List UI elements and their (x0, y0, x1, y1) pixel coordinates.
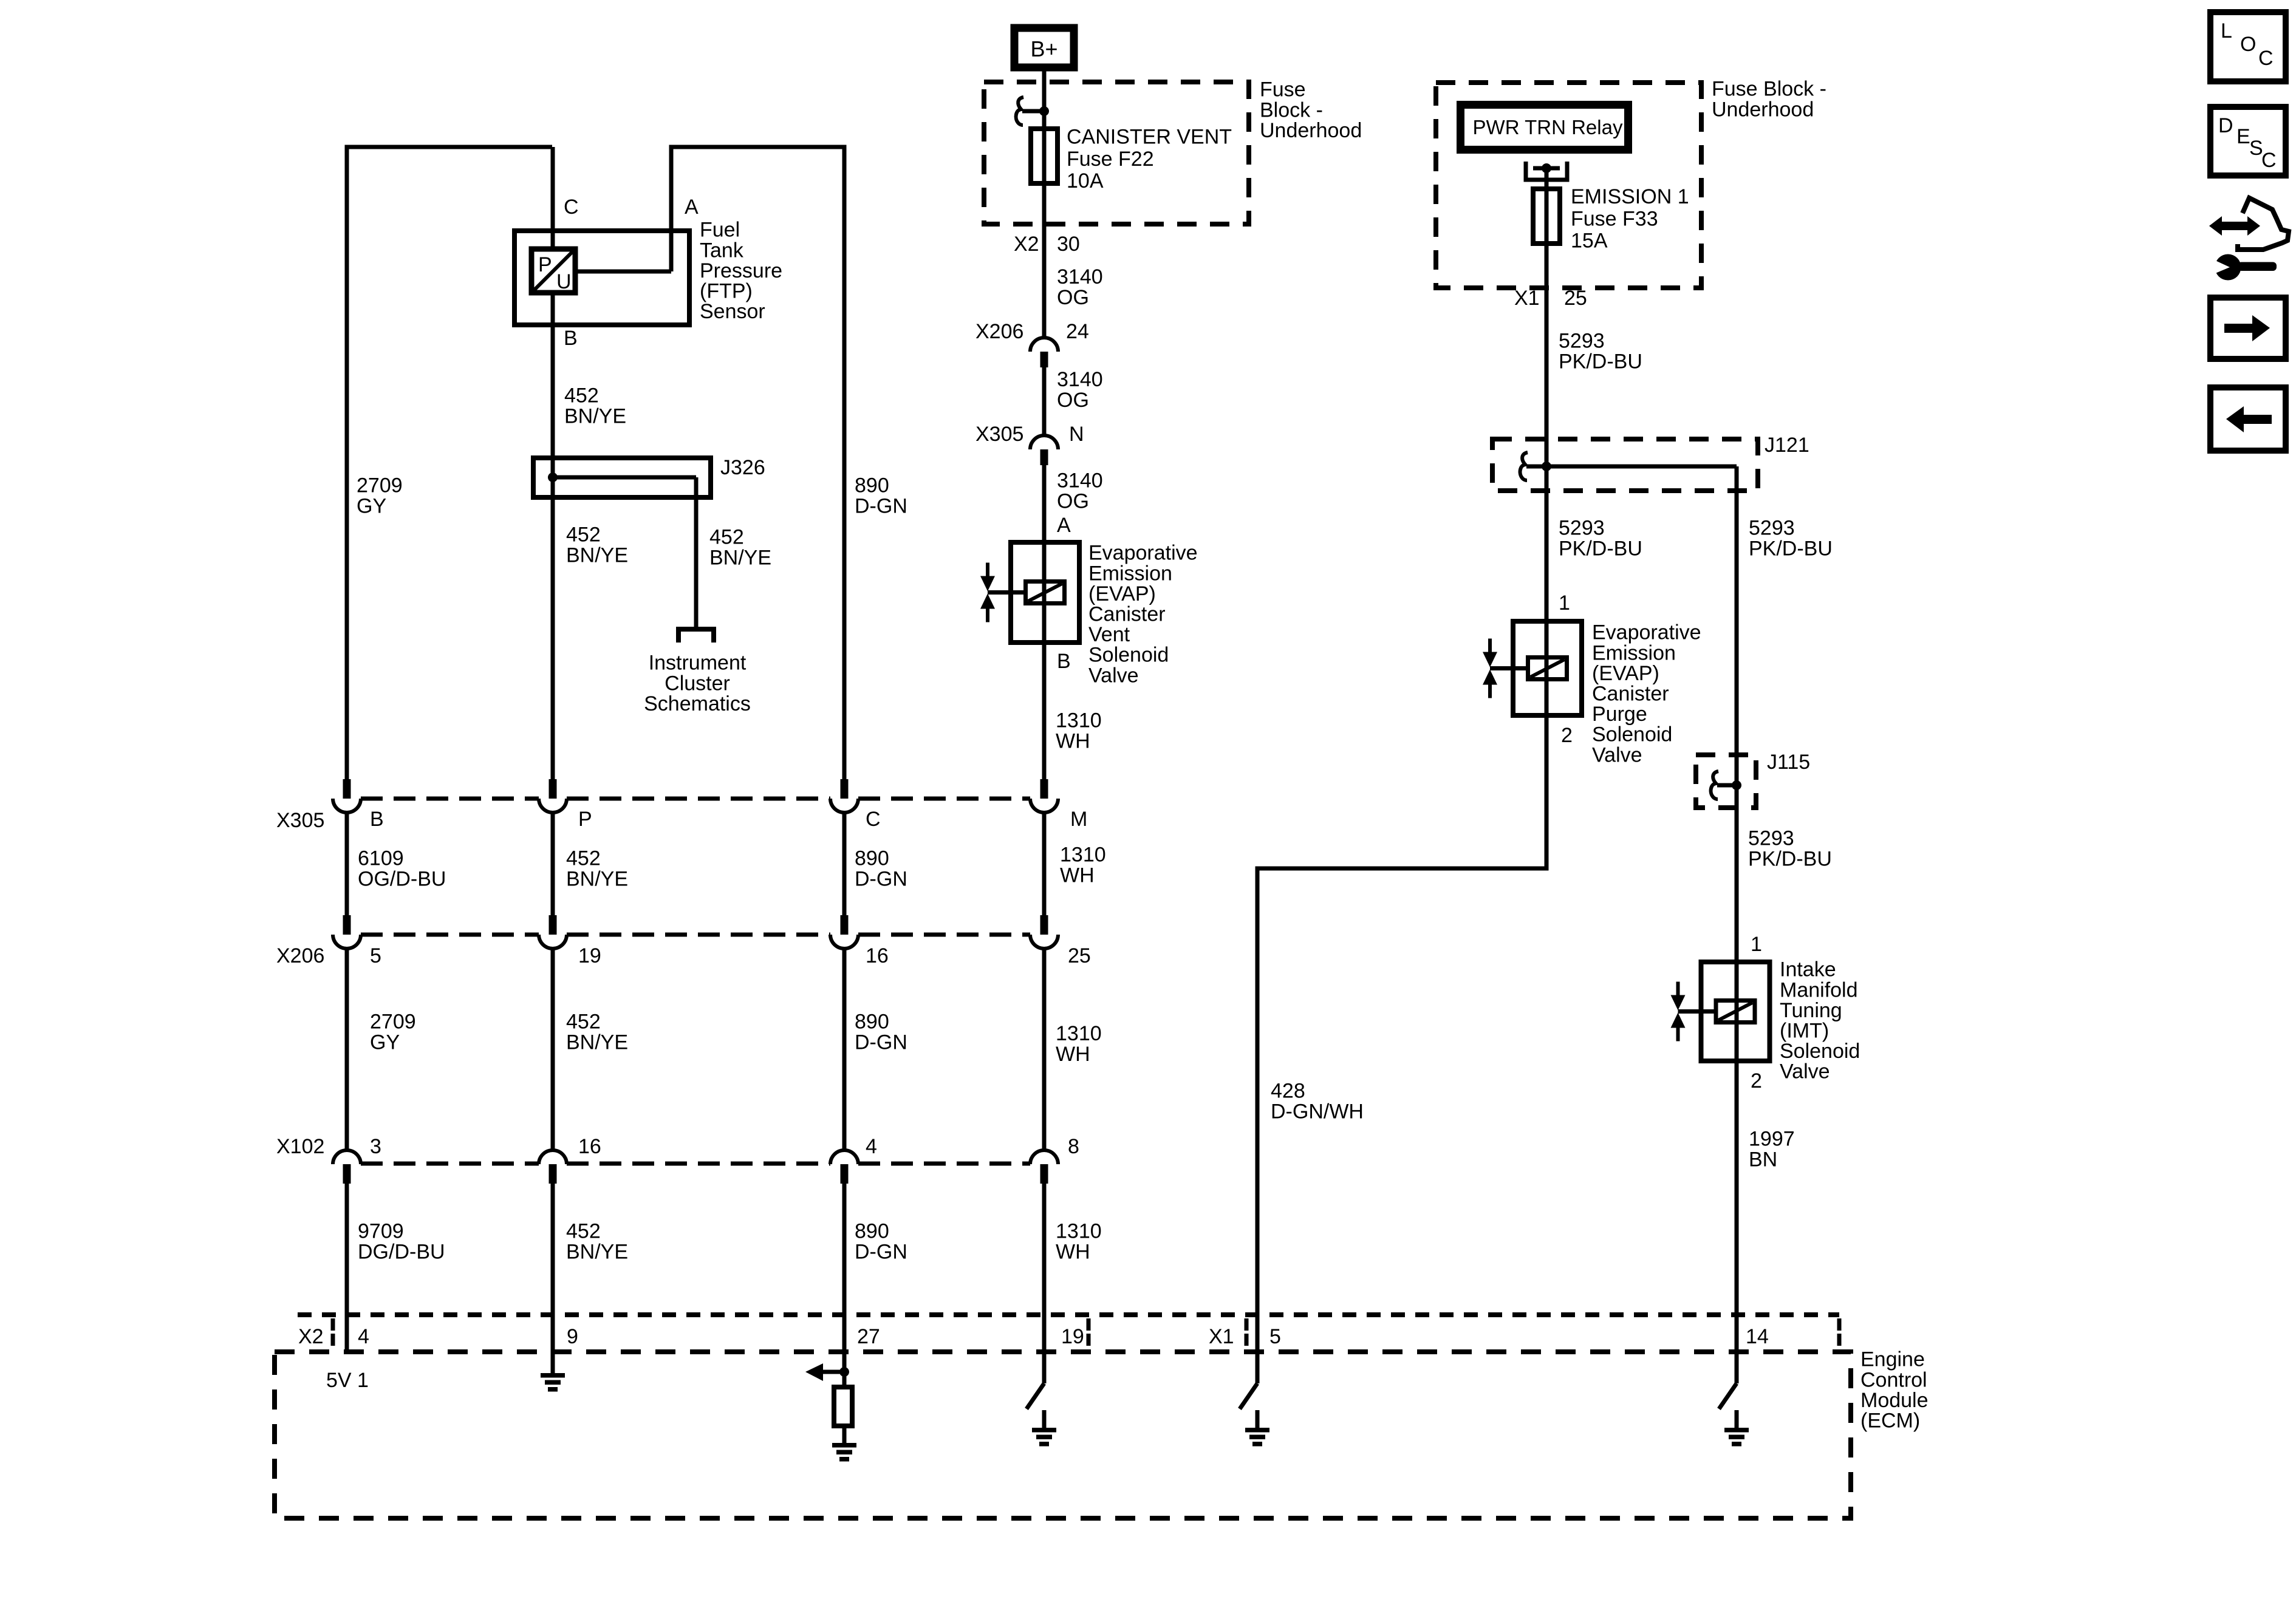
svg-text:WH: WH (1056, 729, 1090, 752)
svg-text:J115: J115 (1767, 751, 1810, 774)
svg-text:Control: Control (1860, 1368, 1927, 1391)
svg-text:428: 428 (1271, 1080, 1305, 1103)
svg-text:Fuel: Fuel (700, 219, 740, 242)
fuse block underhood dashed box (right) (1436, 83, 1701, 288)
junction dot J121 (1542, 462, 1551, 471)
icon back arrow box (2210, 387, 2286, 451)
svg-text:452: 452 (566, 523, 601, 547)
svg-text:D: D (2218, 114, 2233, 137)
in-line connector X206 pin 24 (1030, 338, 1058, 352)
wire fuse F33 to J121 (1545, 244, 1549, 466)
svg-text:Fuse: Fuse (1260, 78, 1306, 101)
svg-text:X206: X206 (975, 320, 1023, 343)
wire segments X305 to X206 (345, 812, 349, 916)
svg-text:16: 16 (578, 1135, 601, 1158)
svg-text:Fuse F22: Fuse F22 (1067, 148, 1154, 171)
svg-text:25: 25 (1564, 287, 1587, 310)
svg-text:U: U (556, 270, 572, 293)
svg-text:C: C (2258, 47, 2274, 70)
svg-text:X305: X305 (276, 809, 324, 832)
ECM internal ground (pin 9) (541, 1373, 565, 1378)
svg-text:5: 5 (1269, 1325, 1281, 1348)
wire through IMT valve (1735, 962, 1739, 1061)
svg-text:L: L (2221, 19, 2232, 43)
in-line connector X305 pin N (1030, 435, 1058, 449)
svg-text:J326: J326 (720, 456, 765, 479)
svg-text:1310: 1310 (1056, 1022, 1102, 1045)
relay contact bracket (1526, 162, 1567, 180)
EVAP canister vent solenoid valve (1011, 542, 1079, 643)
FTP sensor internal link to pin A (575, 270, 671, 274)
svg-text:D-GN: D-GN (855, 867, 907, 890)
svg-text:WH: WH (1056, 1240, 1090, 1263)
svg-text:Block -: Block - (1260, 98, 1323, 121)
svg-text:PK/D-BU: PK/D-BU (1749, 537, 1833, 560)
connector X305 pin C (841, 779, 849, 799)
svg-text:WH: WH (1060, 864, 1095, 887)
relay contact bar (1533, 166, 1560, 171)
icon DESC box (2210, 107, 2286, 176)
svg-text:(ECM): (ECM) (1860, 1410, 1920, 1433)
svg-text:Intake: Intake (1780, 958, 1836, 981)
svg-text:BN: BN (1749, 1148, 1777, 1171)
connector X206 pin 16 (841, 915, 849, 935)
connector X102 pin 3 (333, 1150, 361, 1164)
connector X206 pin 25 (1040, 915, 1048, 935)
wire J121 to purge valve pin 1 (1545, 466, 1549, 621)
svg-text:Vent: Vent (1088, 623, 1130, 646)
fuse block underhood dashed box (left) (984, 82, 1249, 224)
wire through fuse F33 (1545, 189, 1549, 244)
svg-text:Valve: Valve (1088, 664, 1139, 687)
svg-text:14: 14 (1746, 1325, 1769, 1348)
svg-text:GY: GY (370, 1031, 400, 1054)
svg-text:4: 4 (866, 1135, 877, 1158)
J115 curl lead (1717, 783, 1737, 788)
svg-text:19: 19 (578, 944, 601, 967)
wire through vent valve (1042, 542, 1047, 643)
FTP sensor P/U transducer square (531, 249, 575, 293)
connector X206 pin 5 (343, 915, 351, 935)
svg-text:C: C (2261, 149, 2277, 172)
wire purge valve down (1545, 715, 1549, 868)
svg-text:PK/D-BU: PK/D-BU (1559, 537, 1642, 560)
svg-text:452: 452 (709, 526, 744, 549)
svg-text:X305: X305 (975, 423, 1023, 446)
junction dot at fuse (1039, 106, 1049, 116)
wire fuse F22 to connector X2-30 (1042, 183, 1047, 339)
svg-text:Fuse F33: Fuse F33 (1571, 207, 1658, 230)
J121 branch horizontal (1546, 465, 1737, 469)
svg-text:Sensor: Sensor (700, 300, 765, 323)
connector row X305 dashed line (361, 797, 539, 801)
svg-text:D-GN: D-GN (855, 1240, 907, 1263)
svg-text:O: O (2240, 33, 2256, 56)
svg-text:Tank: Tank (700, 239, 744, 262)
svg-text:30: 30 (1057, 233, 1080, 256)
wire IMT valve to ECM pin 14 (1735, 1061, 1739, 1383)
svg-text:BN/YE: BN/YE (566, 1240, 628, 1263)
wire through purge valve (1545, 621, 1549, 715)
svg-text:15A: 15A (1571, 230, 1608, 253)
svg-text:(EVAP): (EVAP) (1592, 662, 1659, 685)
svg-text:9: 9 (567, 1325, 578, 1348)
svg-text:J121: J121 (1765, 434, 1809, 457)
wire FTP pin C (551, 147, 555, 249)
svg-text:Solenoid: Solenoid (1592, 723, 1672, 746)
svg-text:B: B (370, 808, 384, 831)
svg-text:X1: X1 (1514, 287, 1540, 310)
svg-text:Engine: Engine (1860, 1348, 1925, 1371)
ECM driver switch and ground (pin 5) (1240, 1383, 1257, 1409)
svg-text:Fuse Block -: Fuse Block - (1712, 78, 1826, 101)
ECM driver switch and ground (pin 14) (1719, 1383, 1737, 1409)
svg-text:1310: 1310 (1060, 844, 1106, 867)
connector X102 pin 4 (830, 1150, 858, 1164)
svg-text:D-GN: D-GN (855, 494, 907, 517)
icon LOC box (2210, 12, 2286, 81)
icon wrench (2215, 254, 2241, 281)
svg-text:Solenoid: Solenoid (1780, 1040, 1860, 1063)
svg-text:PWR TRN Relay: PWR TRN Relay (1473, 116, 1623, 138)
ECM signal arrow (pin 27) (823, 1370, 844, 1374)
fuse holder lead (1022, 109, 1044, 114)
svg-text:5293: 5293 (1559, 517, 1605, 540)
svg-text:A: A (1057, 514, 1071, 537)
svg-text:B+: B+ (1030, 36, 1057, 61)
svg-text:Instrument: Instrument (649, 652, 747, 675)
svg-text:5: 5 (370, 944, 381, 967)
J326 branch vertical to instrument cluster (694, 477, 699, 627)
svg-text:Tuning: Tuning (1780, 999, 1842, 1022)
splice J326 box (533, 458, 711, 497)
connector bracket X2 start (331, 1318, 335, 1331)
wire J121 to J115 (1735, 466, 1739, 755)
icon vehicle outline (2238, 198, 2289, 250)
svg-text:6109: 6109 (358, 847, 404, 870)
J121 curl lead (1526, 465, 1546, 469)
svg-text:5293: 5293 (1559, 330, 1605, 353)
J326 internal branch horizontal (553, 476, 696, 480)
svg-text:Evaporative: Evaporative (1088, 542, 1198, 565)
ECM internal ground (pin 27) (832, 1443, 856, 1448)
relay box PWR TRN Relay (1461, 105, 1628, 150)
svg-text:Cluster: Cluster (665, 672, 730, 695)
ECM internal resistor (pin 27) (834, 1387, 852, 1426)
ECM junction dot (pin 27) (839, 1367, 849, 1377)
wire J115 to IMT valve pin 1 (1735, 755, 1739, 962)
svg-text:5293: 5293 (1748, 827, 1794, 850)
svg-text:24: 24 (1066, 320, 1089, 343)
power symbol B+ (1014, 28, 1074, 67)
svg-text:M: M (1070, 808, 1087, 831)
svg-text:25: 25 (1068, 944, 1091, 967)
svg-text:452: 452 (566, 1220, 601, 1243)
connector X305 pin P (549, 779, 557, 799)
svg-text:Underhood: Underhood (1712, 98, 1814, 121)
wire segments X102 to ECM (345, 1184, 349, 1352)
IMT solenoid valve (1701, 962, 1770, 1061)
svg-text:(EVAP): (EVAP) (1088, 582, 1156, 605)
svg-text:Evaporative: Evaporative (1592, 621, 1701, 644)
ECM driver switch and ground (pin 19) (1027, 1383, 1044, 1409)
wire 890 D-GN vertical (842, 147, 847, 780)
svg-text:X2: X2 (1014, 233, 1039, 256)
connector X305 pin B (343, 779, 351, 799)
J115 curl (1711, 771, 1718, 799)
connector row X102 dashed line (361, 1162, 539, 1166)
svg-text:Solenoid: Solenoid (1088, 644, 1169, 667)
svg-text:BN/YE: BN/YE (709, 546, 771, 569)
wire inside FTP sensor (pin B side) (551, 293, 555, 325)
icon double arrow (2220, 222, 2249, 230)
svg-text:1: 1 (1559, 592, 1570, 615)
svg-text:P: P (538, 253, 552, 276)
svg-text:Valve: Valve (1592, 743, 1642, 766)
svg-text:D-GN/WH: D-GN/WH (1271, 1100, 1364, 1123)
svg-text:(IMT): (IMT) (1780, 1020, 1829, 1043)
wire FTP pin A vertical (669, 145, 674, 272)
svg-text:Purge: Purge (1592, 703, 1647, 726)
svg-text:10A: 10A (1067, 169, 1104, 193)
junction dot in J326 (548, 472, 558, 482)
off-page connector to instrument cluster (678, 629, 714, 643)
junction dot relay contact (1542, 163, 1551, 173)
connector bracket X2 end (1087, 1318, 1091, 1331)
connector bracket X1 end (1837, 1318, 1842, 1331)
svg-text:OG/D-BU: OG/D-BU (358, 867, 446, 890)
svg-text:X2: X2 (298, 1325, 324, 1348)
svg-text:452: 452 (564, 384, 599, 407)
svg-text:2709: 2709 (357, 474, 403, 497)
ECM connector dashed line (298, 1312, 1839, 1317)
wire through fuse F22 (1042, 129, 1047, 183)
svg-text:1997: 1997 (1749, 1128, 1795, 1151)
svg-text:8: 8 (1068, 1135, 1079, 1158)
wire 428 horizontal run (1256, 867, 1549, 871)
svg-text:5293: 5293 (1749, 517, 1795, 540)
fuse holder curl (1016, 97, 1023, 125)
wire 2709 GY vertical (345, 145, 349, 780)
svg-text:Module: Module (1860, 1389, 1929, 1412)
svg-text:1310: 1310 (1056, 1220, 1102, 1243)
wire vent valve to X305 row (1042, 643, 1047, 780)
fuse F33 EMISSION 1 (1533, 189, 1560, 244)
wire 428 vertical to ECM pin 5 (1256, 867, 1260, 1384)
svg-text:Canister: Canister (1088, 603, 1166, 626)
ECM dashed box (275, 1352, 1851, 1518)
connector X102 pin 16 (539, 1150, 567, 1164)
svg-text:X1: X1 (1209, 1325, 1234, 1348)
svg-text:Canister: Canister (1592, 683, 1669, 706)
svg-text:PK/D-BU: PK/D-BU (1559, 350, 1642, 373)
svg-text:1310: 1310 (1056, 709, 1102, 732)
wire resistor to ground (842, 1426, 847, 1444)
wire 2709 GY top horizontal (345, 145, 553, 149)
svg-text:BN/YE: BN/YE (566, 1031, 628, 1054)
svg-text:Pressure: Pressure (700, 259, 782, 282)
svg-text:(FTP): (FTP) (700, 280, 753, 303)
svg-text:DG/D-BU: DG/D-BU (358, 1240, 445, 1263)
svg-text:890: 890 (855, 474, 889, 497)
splice J115 dashed box (1696, 755, 1756, 808)
svg-text:C: C (564, 196, 579, 219)
svg-text:WH: WH (1056, 1043, 1090, 1066)
svg-text:BN/YE: BN/YE (566, 544, 628, 567)
splice J121 dashed box (1492, 439, 1758, 491)
wire segments X206 to X102 (345, 948, 349, 1151)
svg-text:Valve: Valve (1780, 1060, 1830, 1083)
svg-text:EMISSION 1: EMISSION 1 (1571, 185, 1689, 208)
svg-text:X206: X206 (276, 944, 324, 967)
wire FTP pin A top horizontal (671, 145, 847, 149)
svg-text:P: P (578, 808, 592, 831)
svg-text:452: 452 (566, 1011, 601, 1034)
svg-text:Underhood: Underhood (1260, 119, 1362, 142)
wire X305-N to EVAP vent valve pin A (1042, 465, 1047, 542)
fuse F22 CANISTER VENT (1031, 129, 1057, 183)
svg-text:19: 19 (1061, 1325, 1084, 1348)
svg-text:4: 4 (358, 1325, 369, 1348)
svg-text:OG: OG (1057, 286, 1089, 309)
svg-text:C: C (866, 808, 881, 831)
svg-text:B: B (564, 327, 578, 350)
svg-text:B: B (1057, 650, 1071, 673)
connector X102 pin 8 (1030, 1150, 1058, 1164)
connector bracket X1 start (1245, 1318, 1249, 1331)
wire B+ to fuse block (1042, 67, 1047, 129)
svg-text:16: 16 (866, 944, 889, 967)
connector row X206 dashed line (361, 933, 539, 937)
wire 452 through J326 (551, 458, 555, 780)
EVAP purge solenoid valve (1513, 621, 1582, 715)
J121 curl (1520, 452, 1528, 480)
svg-text:OG: OG (1057, 489, 1089, 513)
svg-text:2: 2 (1561, 724, 1573, 747)
svg-text:27: 27 (857, 1325, 880, 1348)
svg-text:GY: GY (357, 494, 386, 517)
svg-text:BN/YE: BN/YE (564, 404, 626, 428)
svg-text:Emission: Emission (1088, 562, 1172, 585)
svg-text:5V 1: 5V 1 (326, 1369, 369, 1392)
junction dot J115 (1732, 780, 1741, 790)
svg-text:D-GN: D-GN (855, 1031, 907, 1054)
svg-text:Emission: Emission (1592, 641, 1676, 664)
svg-text:OG: OG (1057, 389, 1089, 412)
svg-text:890: 890 (855, 1220, 889, 1243)
svg-text:890: 890 (855, 847, 889, 870)
svg-text:Manifold: Manifold (1780, 978, 1858, 1001)
FTP sensor box (514, 231, 689, 325)
svg-text:3140: 3140 (1057, 265, 1103, 288)
svg-text:PK/D-BU: PK/D-BU (1748, 847, 1832, 870)
svg-text:N: N (1069, 423, 1084, 446)
svg-text:1: 1 (1751, 933, 1762, 956)
svg-text:A: A (685, 196, 699, 219)
wire relay to fuse F33 (1545, 168, 1549, 189)
svg-text:CANISTER VENT: CANISTER VENT (1067, 126, 1232, 149)
svg-text:E: E (2236, 125, 2250, 148)
connector X206 pin 19 (549, 915, 557, 935)
wire 452 BN/YE pin B to J326 (551, 325, 555, 458)
svg-text:X102: X102 (276, 1135, 324, 1158)
svg-text:3140: 3140 (1057, 469, 1103, 493)
connector X305 pin M (1040, 779, 1048, 799)
svg-text:Schematics: Schematics (644, 692, 751, 715)
wire X206-24 to X305-N (1042, 367, 1047, 437)
svg-text:890: 890 (855, 1011, 889, 1034)
svg-text:9709: 9709 (358, 1220, 404, 1243)
svg-text:452: 452 (566, 847, 601, 870)
icon forward arrow box (2210, 298, 2286, 359)
svg-text:BN/YE: BN/YE (566, 867, 628, 890)
svg-text:2: 2 (1751, 1069, 1762, 1093)
svg-text:3140: 3140 (1057, 368, 1103, 391)
svg-text:3: 3 (370, 1135, 381, 1158)
svg-text:2709: 2709 (370, 1011, 416, 1034)
